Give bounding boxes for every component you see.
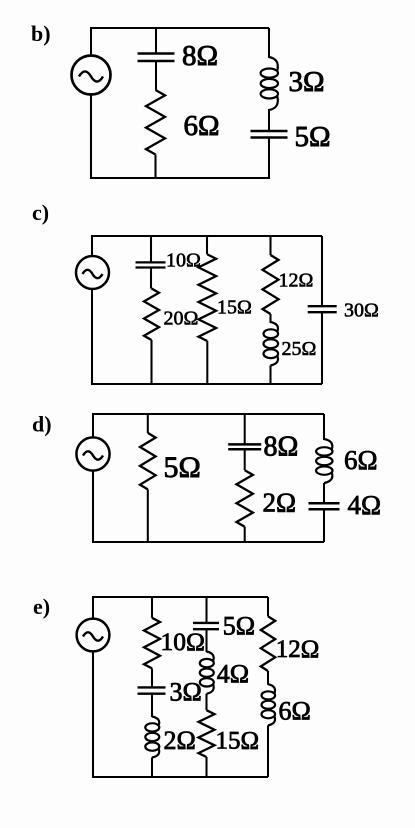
resistor 10ohm: [144, 618, 160, 669]
wire e-b2 m1: [205, 629, 207, 652]
wire d-b1 top: [147, 414, 149, 433]
wire d-b2 mid: [244, 449, 246, 470]
svg-text:8Ω: 8Ω: [264, 432, 299, 463]
inductor 4ohm: [207, 652, 214, 662]
resistor 2ohm: [237, 470, 253, 527]
wire top d: [93, 413, 324, 415]
svg-text:d): d): [32, 412, 52, 437]
wire bottom c: [92, 383, 322, 385]
inductor 25ohm: [271, 322, 279, 332]
resistor 15ohm-e: [199, 710, 215, 757]
wire c-right top: [321, 236, 323, 306]
wire bottom e: [93, 776, 268, 778]
wire c-b3 top: [269, 236, 271, 255]
resistor 12ohm: [263, 255, 279, 314]
wire top c: [92, 235, 322, 237]
svg-text:6Ω: 6Ω: [184, 110, 220, 142]
svg-text:4Ω: 4Ω: [348, 490, 382, 520]
svg-text:6Ω: 6Ω: [279, 697, 311, 726]
svg-text:3Ω: 3Ω: [289, 66, 325, 98]
wire mid b: [155, 61, 157, 90]
resistor 15ohm: [199, 254, 217, 341]
svg-text:12Ω: 12Ω: [276, 636, 320, 663]
ac source Ve: [77, 619, 110, 652]
wire e-b1 bottom: [151, 758, 153, 778]
inductor 3ohm: [269, 57, 278, 71]
wire d-right bottom: [323, 509, 325, 542]
wire d-right top: [323, 414, 325, 440]
svg-text:5Ω: 5Ω: [164, 451, 201, 484]
svg-text:20Ω: 20Ω: [164, 308, 199, 330]
wire left-bottom e: [92, 651, 94, 778]
wire e-b1 m1: [151, 668, 153, 687]
svg-text:12Ω: 12Ω: [279, 270, 314, 292]
resistor 6ohm: [146, 90, 165, 155]
wire right-mid b: [268, 109, 270, 131]
wire c-right bottom: [321, 312, 323, 384]
svg-text:4Ω: 4Ω: [217, 660, 249, 689]
wire c-b2 bottom: [206, 341, 208, 384]
svg-text:10Ω: 10Ω: [166, 250, 201, 272]
svg-text:15Ω: 15Ω: [217, 297, 252, 319]
wire e-b1 top: [151, 597, 153, 618]
wire mid-top b: [155, 28, 157, 54]
inductor 6ohm-d: [324, 439, 332, 450]
svg-text:2Ω: 2Ω: [164, 726, 196, 755]
wire c-b1 top: [150, 236, 152, 262]
ac source Vd: [76, 437, 109, 470]
wire left-bottom c: [91, 289, 93, 385]
wire d-right mid: [323, 483, 325, 503]
wire top e: [93, 596, 268, 598]
capacitor 4ohm: [309, 502, 340, 505]
wire e-right top: [267, 597, 269, 616]
wire e-b2 bottom: [205, 757, 207, 777]
svg-text:25Ω: 25Ω: [282, 338, 317, 360]
svg-text:15Ω: 15Ω: [216, 728, 260, 755]
wire e-right bottom: [267, 725, 269, 777]
wire mid-bottom b: [154, 155, 156, 179]
svg-text:e): e): [33, 594, 50, 619]
wire e-b2 m2: [205, 694, 207, 710]
svg-text:30Ω: 30Ω: [344, 300, 379, 322]
wire bottom d: [93, 541, 324, 543]
wire c-b3 mid: [269, 314, 271, 323]
resistor 20ohm: [144, 289, 159, 341]
capacitor 5ohm-e: [193, 622, 219, 624]
capacitor 10ohm: [136, 261, 166, 263]
wire d-b2 top: [244, 414, 246, 444]
wire e-right mid: [267, 671, 269, 685]
wire left-top e: [92, 596, 94, 619]
wire bottom b: [91, 177, 269, 179]
svg-text:c): c): [32, 200, 49, 225]
resistor 12ohm-e: [261, 616, 275, 671]
wire d-b1 bottom: [147, 489, 149, 542]
inductor 6ohm-e: [268, 684, 275, 694]
capacitor 5ohm: [251, 130, 288, 133]
svg-text:2Ω: 2Ω: [263, 488, 297, 518]
ac source Vc: [76, 256, 109, 289]
capacitor 30ohm: [308, 305, 337, 307]
svg-text:10Ω: 10Ω: [161, 627, 205, 656]
wire d-b2 bottom: [244, 527, 246, 542]
svg-text:5Ω: 5Ω: [295, 121, 331, 153]
svg-text:5Ω: 5Ω: [223, 612, 255, 641]
ac source Vb: [72, 56, 111, 95]
wire c-b1 bottom: [150, 340, 152, 384]
inductor 2ohm: [152, 717, 159, 726]
wire e-b1 m2: [151, 694, 153, 717]
capacitor 8ohm-d: [228, 443, 261, 446]
resistor 5ohm: [140, 433, 156, 490]
wire right-bottom b: [268, 138, 270, 180]
svg-text:8Ω: 8Ω: [182, 40, 218, 72]
capacitor 3ohm: [138, 686, 166, 688]
wire top b: [91, 27, 269, 29]
wire left-top c: [91, 235, 93, 256]
wire c-b1 mid: [150, 268, 152, 289]
wire c-b3 bottom: [269, 365, 271, 384]
svg-text:6Ω: 6Ω: [344, 445, 378, 475]
wire e-b2 top: [205, 597, 207, 623]
wire left-bottom b: [90, 95, 92, 180]
wire left-top b: [90, 27, 92, 56]
svg-text:b): b): [31, 21, 51, 46]
wire c-b2 top: [206, 236, 208, 254]
wire left-top d: [92, 413, 94, 438]
wire right-top b: [268, 28, 270, 58]
capacitor 8ohm: [138, 52, 175, 55]
wire left-bottom d: [92, 471, 94, 543]
svg-text:3Ω: 3Ω: [170, 678, 202, 707]
